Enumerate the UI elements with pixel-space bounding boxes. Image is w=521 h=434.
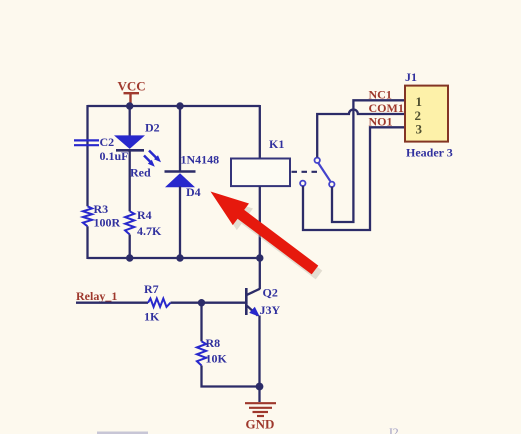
wire R4 bottom xyxy=(129,235,131,260)
svg-text:Red: Red xyxy=(130,166,151,180)
wire K1 coil top xyxy=(259,105,261,159)
annotation arrow pointing at D4 xyxy=(211,192,319,275)
switch arm xyxy=(318,163,330,181)
svg-text:D2: D2 xyxy=(145,121,160,135)
wire K1 coil bottom xyxy=(259,186,261,259)
wire NO1 xyxy=(303,127,405,230)
svg-text:NC1: NC1 xyxy=(369,87,392,101)
switch NC contact xyxy=(329,182,334,187)
wire R3 bottom xyxy=(86,226,88,259)
svg-text:3: 3 xyxy=(416,122,423,137)
relay K1 coil xyxy=(231,159,290,187)
svg-text:R8: R8 xyxy=(206,336,221,350)
wire base right xyxy=(171,302,247,304)
svg-text:1K: 1K xyxy=(144,310,160,324)
wire D2 anode xyxy=(129,105,131,136)
wire D4 cathode xyxy=(179,105,181,172)
capacitor C2 xyxy=(74,140,99,145)
diode D4 xyxy=(165,172,196,188)
connector J1 xyxy=(405,86,448,142)
resistor R7 xyxy=(148,299,171,307)
svg-text:VCC: VCC xyxy=(118,79,146,94)
wire D4 anode xyxy=(179,187,181,260)
junction dots xyxy=(126,102,133,109)
svg-text:J2: J2 xyxy=(388,425,399,434)
svg-text:NO1: NO1 xyxy=(369,114,393,128)
transistor Q2 xyxy=(246,288,259,317)
svg-text:J1: J1 xyxy=(405,70,417,84)
wire top rail xyxy=(88,105,260,107)
svg-text:COM1: COM1 xyxy=(369,101,404,115)
switch NO contact xyxy=(300,181,305,186)
svg-text:Q2: Q2 xyxy=(263,285,278,299)
svg-text:10K: 10K xyxy=(206,352,228,366)
svg-text:GND: GND xyxy=(246,416,275,431)
svg-text:R4: R4 xyxy=(137,208,152,222)
wire R8 top xyxy=(200,303,202,342)
svg-text:R3: R3 xyxy=(94,202,109,216)
wire collector xyxy=(259,258,261,289)
resistor R4 xyxy=(125,211,134,234)
cropped text artifact bottom left xyxy=(97,432,148,434)
svg-text:1: 1 xyxy=(416,94,423,109)
svg-text:100R: 100R xyxy=(94,216,121,230)
wire R8 bottom xyxy=(202,366,260,387)
svg-text:Relay_1: Relay_1 xyxy=(76,289,117,303)
annotation arrow shadow xyxy=(215,197,323,280)
wire bottom rail xyxy=(88,257,260,259)
switch common contact xyxy=(315,158,320,163)
svg-text:1N4148: 1N4148 xyxy=(181,153,220,167)
svg-text:J3Y: J3Y xyxy=(260,303,281,317)
svg-text:C2: C2 xyxy=(100,135,115,149)
svg-text:R7: R7 xyxy=(144,282,159,296)
ground symbol GND xyxy=(245,403,276,416)
svg-text:Header 3: Header 3 xyxy=(406,146,453,160)
power symbol VCC xyxy=(124,93,140,105)
resistor R3 xyxy=(83,206,92,226)
svg-text:4.7K: 4.7K xyxy=(137,224,162,238)
dashed actuation line xyxy=(292,171,319,173)
svg-text:K1: K1 xyxy=(269,137,284,151)
resistor R8 xyxy=(197,341,206,365)
wire COM1 with hop xyxy=(317,110,405,158)
wire base left xyxy=(76,302,148,304)
wire C2 R3 branch xyxy=(86,105,88,206)
wire emitter xyxy=(258,316,260,403)
wire D2 cathode to R4 xyxy=(129,150,131,211)
LED D2 xyxy=(114,135,161,166)
svg-text:D4: D4 xyxy=(186,185,201,199)
wire NC1 xyxy=(332,100,405,222)
